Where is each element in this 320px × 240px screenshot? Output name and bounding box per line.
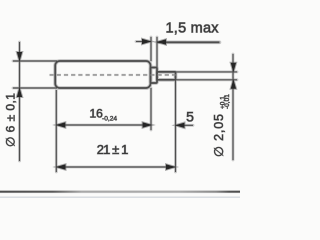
svg-text:∅ 2,05: ∅ 2,05 (212, 114, 226, 157)
svg-text:5: 5 (186, 109, 194, 125)
svg-text:∅ 6 ± 0,1: ∅ 6 ± 0,1 (4, 93, 18, 147)
svg-text:-0,01: -0,01 (224, 94, 231, 109)
svg-text:-0,24: -0,24 (102, 115, 117, 122)
svg-text:1,5 max: 1,5 max (166, 21, 220, 37)
svg-text:21 ± 1: 21 ± 1 (97, 142, 129, 157)
